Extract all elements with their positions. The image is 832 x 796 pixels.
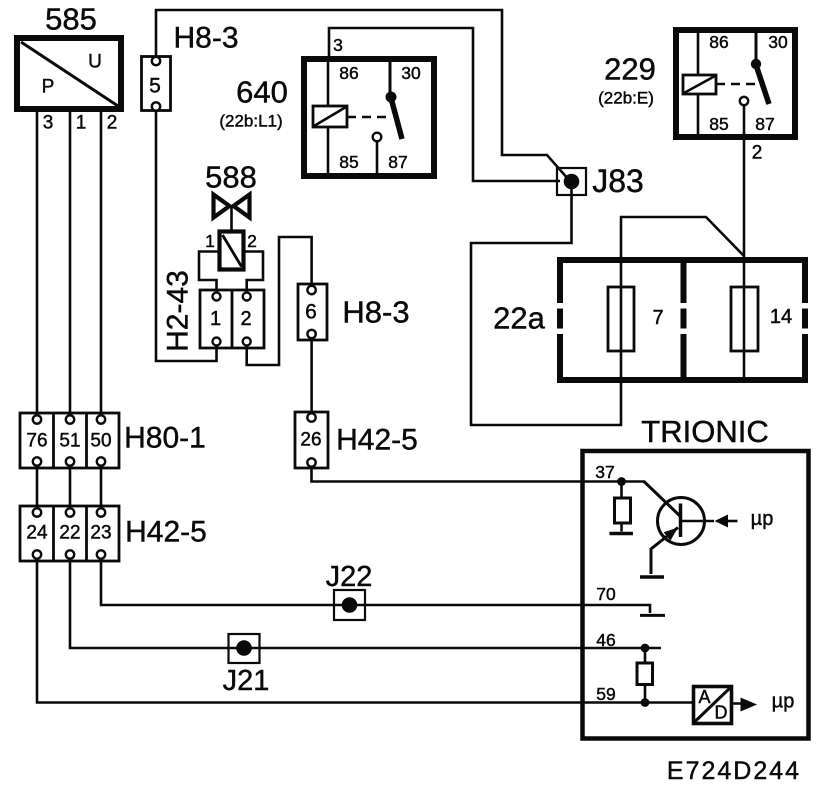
svg-text:2: 2 bbox=[107, 113, 118, 134]
relay 640 pin 85 lead bbox=[327, 127, 330, 173]
relay 640 pin 86 lead bbox=[327, 62, 330, 106]
fuse 14 bbox=[731, 257, 792, 380]
relay 229 pin 87 contact bbox=[740, 97, 748, 105]
A/D converter U2 bbox=[694, 687, 795, 724]
svg-text:86: 86 bbox=[709, 32, 728, 52]
transistor Q1 bbox=[622, 482, 774, 578]
wire H8-3 pin5 bottom to H2-43 pin1 bbox=[156, 111, 217, 361]
pressure sensor 585 bbox=[17, 2, 121, 134]
svg-text:A: A bbox=[698, 687, 710, 707]
wire relay640 pin3 to J83 bbox=[329, 28, 560, 181]
valve bowtie bbox=[214, 195, 230, 218]
svg-text:(22b:E): (22b:E) bbox=[598, 89, 654, 108]
svg-text:24: 24 bbox=[26, 523, 48, 544]
relay 640 dashed link bbox=[347, 116, 390, 119]
bottom border bbox=[557, 377, 808, 383]
svg-text:46: 46 bbox=[596, 630, 615, 650]
node pin46 junction bbox=[641, 644, 650, 653]
connector H42-5 pin 26 bbox=[295, 412, 418, 468]
svg-text:22: 22 bbox=[59, 523, 80, 544]
ground under emitter bbox=[640, 575, 664, 579]
connector H8-3 pin 6 bbox=[298, 284, 410, 340]
wires H80-1 to H42-5 bbox=[36, 466, 39, 509]
fuse 7 bbox=[608, 260, 664, 380]
relay 229 pin 30 lead bbox=[755, 33, 758, 60]
resistor at pin 37 bbox=[610, 482, 634, 534]
wire J83 to fuse 7 bottom bbox=[471, 189, 621, 425]
TRIONIC ECU box bbox=[583, 414, 809, 739]
svg-text:640: 640 bbox=[236, 75, 288, 110]
svg-text:23: 23 bbox=[90, 523, 111, 544]
svg-text:51: 51 bbox=[59, 431, 80, 452]
svg-text:H2-43: H2-43 bbox=[162, 270, 195, 352]
svg-text:H8-3: H8-3 bbox=[173, 22, 238, 55]
svg-text:E724D244: E724D244 bbox=[667, 757, 801, 785]
svg-text:J21: J21 bbox=[223, 665, 270, 697]
svg-text:76: 76 bbox=[26, 431, 47, 452]
svg-text:1: 1 bbox=[210, 308, 221, 330]
svg-text:85: 85 bbox=[339, 152, 358, 172]
svg-text:2: 2 bbox=[752, 143, 763, 164]
wire H8-3 pin5 top to J83 bbox=[156, 10, 569, 180]
connector H80-1 bbox=[20, 413, 206, 468]
relay 229 pin 86 lead bbox=[697, 33, 700, 75]
svg-text:3: 3 bbox=[43, 113, 54, 134]
relay 229 bbox=[598, 30, 795, 164]
svg-text:1: 1 bbox=[205, 231, 215, 251]
wire H42-5 pin22 to TRIONIC pin46 bbox=[70, 559, 661, 648]
wire fuse7 top to fuse14 junction bbox=[621, 217, 744, 260]
junction J21 bbox=[223, 634, 270, 697]
svg-text:585: 585 bbox=[45, 2, 97, 37]
svg-text:H42-5: H42-5 bbox=[336, 424, 418, 457]
svg-text:(22b:L1): (22b:L1) bbox=[219, 112, 282, 131]
svg-text:J22: J22 bbox=[326, 561, 373, 593]
relay 640 pin 87 contact bbox=[373, 133, 382, 142]
svg-text:D: D bbox=[715, 703, 728, 723]
svg-text:14: 14 bbox=[770, 306, 792, 328]
relay 640 pin 30 lead bbox=[389, 62, 392, 93]
svg-text:2: 2 bbox=[240, 308, 251, 330]
relay 229 switch blade bbox=[756, 65, 769, 104]
svg-text:87: 87 bbox=[388, 152, 407, 172]
svg-text:229: 229 bbox=[604, 52, 656, 87]
svg-text:J83: J83 bbox=[592, 163, 644, 199]
wire H42-5 pin23 to TRIONIC pin70 bbox=[101, 559, 650, 613]
svg-text:P: P bbox=[42, 77, 55, 98]
ground under resistor bbox=[610, 532, 634, 536]
relay 229 pin 85 lead bbox=[697, 94, 700, 134]
relay 229 dashed link bbox=[716, 83, 756, 86]
junction J22 bbox=[326, 561, 373, 620]
svg-text:70: 70 bbox=[596, 584, 616, 604]
connector H2-43 bbox=[162, 270, 265, 352]
wire H2-43 pin2 to H8-3 pin6 bbox=[247, 237, 312, 365]
relay 640 bbox=[219, 35, 434, 176]
wire 588 pin1 to H2-43 pin1 bbox=[199, 252, 219, 294]
pin 70 open contact bar bbox=[640, 614, 665, 617]
svg-text:TRIONIC: TRIONIC bbox=[641, 414, 768, 449]
svg-text:59: 59 bbox=[596, 684, 615, 704]
base line to uP bbox=[682, 520, 714, 523]
wire H42-5 pin24 to TRIONIC pin59 bbox=[37, 559, 693, 703]
svg-text:30: 30 bbox=[768, 32, 788, 52]
svg-text:3: 3 bbox=[333, 35, 343, 55]
wire H42-5 pin26 to TRIONIC pin37 bbox=[312, 466, 620, 482]
svg-text:50: 50 bbox=[90, 431, 111, 452]
middle divider dashed bbox=[681, 260, 687, 303]
solenoid body bbox=[220, 232, 244, 270]
node pin37 junction bbox=[617, 477, 626, 486]
connector H8-3 pin 5 bbox=[142, 22, 239, 111]
svg-text:86: 86 bbox=[339, 63, 358, 83]
svg-text:87: 87 bbox=[755, 114, 774, 134]
wire 585 pin3 to H80-1 pin76 bbox=[36, 112, 39, 416]
svg-text:H8-3: H8-3 bbox=[342, 295, 409, 330]
wire 585 pin2 to H80-1 pin50 bbox=[100, 112, 103, 416]
svg-text:2: 2 bbox=[247, 231, 257, 251]
junction J83 bbox=[557, 163, 644, 199]
svg-text:U: U bbox=[88, 52, 102, 73]
wire 585 pin1 to H80-1 pin51 bbox=[69, 112, 72, 416]
svg-text:6: 6 bbox=[305, 301, 317, 324]
solenoid valve 588 bbox=[199, 160, 263, 294]
relay 640 switch blade bbox=[391, 98, 402, 139]
connector H42-5 bbox=[20, 506, 207, 561]
fuse box 22a bbox=[493, 257, 808, 383]
wire 588 pin2 to H2-43 pin2 bbox=[244, 252, 263, 294]
svg-text:85: 85 bbox=[709, 114, 728, 134]
wire H8-3 pin6 to H42-5 pin26 bbox=[310, 338, 313, 414]
left border dashed bbox=[557, 257, 563, 303]
relay 229 coil bbox=[683, 75, 716, 94]
svg-text:588: 588 bbox=[205, 160, 257, 195]
wire relay229 pin87 to fuse 14 bbox=[743, 137, 746, 257]
right border dashed bbox=[802, 257, 808, 303]
svg-text:26: 26 bbox=[300, 430, 321, 451]
svg-text:µp: µp bbox=[772, 691, 795, 713]
svg-text:1: 1 bbox=[76, 113, 87, 134]
relay 640 coil bbox=[313, 106, 347, 127]
svg-text:5: 5 bbox=[149, 75, 161, 98]
valve stem bbox=[230, 206, 233, 231]
svg-text:22a: 22a bbox=[493, 301, 545, 336]
svg-text:µp: µp bbox=[751, 508, 774, 530]
resistor between pin46 and pin59 bbox=[637, 648, 653, 703]
node pin59 junction bbox=[641, 698, 650, 707]
emitter with arrow bbox=[651, 528, 678, 575]
svg-text:H80-1: H80-1 bbox=[124, 422, 206, 455]
collector diagonal bbox=[622, 480, 646, 483]
svg-text:30: 30 bbox=[401, 63, 421, 83]
svg-text:7: 7 bbox=[652, 307, 663, 329]
top border bbox=[557, 257, 808, 263]
svg-text:H42-5: H42-5 bbox=[125, 516, 207, 549]
svg-text:37: 37 bbox=[595, 462, 614, 482]
